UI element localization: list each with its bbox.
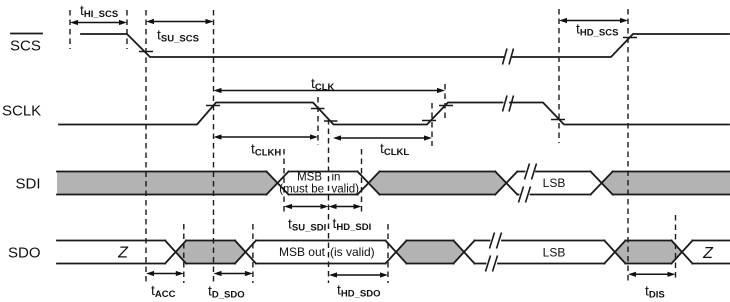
bus SDI gray segment 1 bbox=[57, 172, 278, 195]
svg-text:MSB out: MSB out bbox=[279, 245, 326, 259]
dashed line tHD_SDO right bbox=[387, 224, 389, 283]
svg-text:SDO: SDO bbox=[8, 245, 41, 262]
bus SDO gray hexagon 1 bbox=[176, 241, 246, 264]
arrow tCLKH bbox=[214, 134, 319, 139]
tick SCLK rise 1 bbox=[206, 105, 220, 107]
bus SDI top edge bbox=[57, 171, 730, 173]
bus SDO gray hexagon 3 bbox=[615, 241, 682, 264]
dashed line SCS fall (tSU_SCS left, tACC left) bbox=[145, 10, 147, 283]
dashed line tCLKL right bbox=[431, 103, 433, 146]
bus SDO bottom edge bbox=[57, 263, 730, 265]
wire SCLK waveform bbox=[59, 103, 729, 125]
bus SDO transition X6 bbox=[672, 241, 693, 264]
bus SDO transition X4 bbox=[454, 241, 475, 264]
arrow tCLKL bbox=[333, 135, 432, 140]
tick SCLK fall 1 bottom bbox=[324, 120, 338, 122]
dashed line SCLK fall 2 (tHD_SCS left) bbox=[558, 9, 560, 143]
bus SDI transition X2 bbox=[358, 172, 380, 195]
tick SCLK rise 2 top bbox=[439, 105, 453, 107]
svg-text:SDI: SDI bbox=[16, 176, 41, 193]
break SDI bottom bbox=[519, 187, 531, 203]
bus SDO gray hexagon 2 bbox=[396, 241, 464, 264]
dashed line tHD_SDI right bbox=[361, 149, 363, 215]
dashed line tDIS right bbox=[675, 215, 677, 279]
svg-text:valid): valid) bbox=[332, 184, 360, 196]
dashed line tACC right bbox=[183, 224, 185, 283]
bus SDI transition X3 bbox=[495, 172, 517, 195]
dashed line SCLK fall top (tCLKH right) bbox=[317, 97, 319, 145]
dashed line tHI_SCS right bbox=[126, 10, 128, 49]
tick SCS fall bbox=[139, 51, 153, 53]
svg-text:MSB: MSB bbox=[297, 172, 322, 184]
wire SCS waveform bbox=[81, 34, 729, 57]
dashed line SCS rise (tHD_SCS right, tDIS left) bbox=[627, 9, 629, 281]
arrow tHD_SDO bbox=[329, 272, 388, 277]
bus SDO transition X3 bbox=[386, 241, 407, 264]
arrow tHD_SDI bbox=[329, 204, 362, 209]
break SCLK high line bbox=[503, 96, 514, 112]
dashed line tHI_SCS left bbox=[69, 10, 71, 49]
bus SDO transition X5 bbox=[604, 241, 625, 264]
break SDO top bbox=[490, 233, 502, 249]
arrow tHI_SCS bbox=[70, 20, 127, 25]
bus SDI gray segment 2 bbox=[369, 172, 507, 195]
svg-text:LSB: LSB bbox=[543, 246, 566, 260]
dashed line tD_SDO right bbox=[252, 224, 254, 283]
bus SDO top edge bbox=[57, 240, 730, 242]
dashed line tSU_SDI left bbox=[283, 149, 285, 215]
svg-text:Z: Z bbox=[117, 245, 129, 262]
tick SCLK rise 2 bottom bbox=[422, 120, 436, 122]
arrow tD_SDO bbox=[214, 271, 253, 276]
svg-text:in: in bbox=[332, 172, 341, 184]
arrow tHD_SCS bbox=[559, 18, 628, 23]
arrow tSU_SCS bbox=[146, 19, 214, 24]
bus SDO transition X2 bbox=[235, 241, 256, 264]
svg-text:SCS: SCS bbox=[10, 38, 41, 55]
bus SDI transition X1 bbox=[267, 172, 289, 195]
arrow tCLK bbox=[214, 88, 446, 93]
break SCS low line bbox=[503, 49, 514, 65]
svg-text:LSB: LSB bbox=[543, 176, 566, 190]
node SCS label overline bbox=[11, 33, 42, 35]
tick SCLK fall 2 bbox=[551, 119, 565, 121]
arrow tDIS bbox=[628, 272, 676, 277]
arrow tSU_SDI bbox=[284, 204, 329, 209]
tick SCLK fall 1 top bbox=[311, 108, 325, 110]
svg-text:(is valid): (is valid) bbox=[330, 245, 375, 259]
svg-text:(must be: (must be bbox=[279, 184, 324, 196]
dashed line SCLK rise 2 (tCLK right) bbox=[444, 84, 446, 120]
tick SCS rise bbox=[623, 37, 637, 39]
bus SDI bottom edge bbox=[57, 194, 730, 196]
svg-text:SCLK: SCLK bbox=[2, 103, 41, 120]
dashed line SCLK rise 1 (tSU_SCS right, tCLK left) bbox=[213, 10, 215, 283]
svg-text:Z: Z bbox=[702, 245, 714, 262]
break SDI top bbox=[525, 164, 537, 180]
bus SDI transition X4 bbox=[591, 172, 613, 195]
arrow tACC bbox=[146, 271, 184, 276]
bus SDI gray segment 3 bbox=[602, 172, 730, 195]
bus SDO transition X1 bbox=[165, 241, 186, 264]
break SDO bottom bbox=[486, 256, 498, 272]
dashed line SCLK fall bottom (tSU_SDI right, tHD_SDI left) bbox=[328, 119, 330, 283]
